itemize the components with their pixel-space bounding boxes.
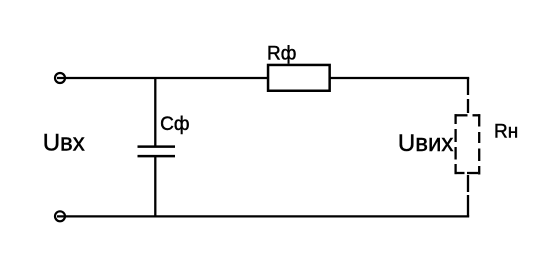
capacitor Cф top plate [138, 145, 176, 148]
resistor Rн dashed body left edge [454, 114, 456, 124]
wire top from input terminal to corner [57, 77, 469, 79]
wire capacitor branch lower [154, 157, 156, 216]
wire right branch lower dash segment [467, 175, 469, 192]
terminal input bottom [55, 211, 65, 221]
capacitor Cф bottom plate [138, 155, 176, 158]
wire right branch lower solid segment [467, 195, 469, 216]
wire right branch upper solid segment [467, 78, 469, 95]
svg-text:Uвих: Uвих [398, 130, 454, 157]
wire right branch upper dash segment [467, 99, 469, 113]
terminal input top [55, 73, 65, 83]
svg-text:Cф: Cф [160, 114, 189, 135]
svg-text:Uвх: Uвх [43, 130, 85, 157]
resistor Rн dashed body bottom edge [455, 172, 465, 174]
resistor Rн dashed body top edge [455, 114, 468, 116]
resistor Rн dashed body right edge [478, 114, 480, 126]
wire capacitor branch upper [154, 78, 156, 147]
resistor Rф body [268, 65, 330, 91]
wire bottom from input terminal to corner [57, 215, 469, 217]
svg-text:Rн: Rн [494, 122, 518, 143]
svg-text:Rф: Rф [267, 44, 296, 65]
